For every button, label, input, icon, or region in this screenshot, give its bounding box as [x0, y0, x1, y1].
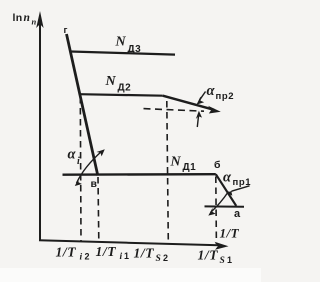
x-axis [39, 240, 219, 245]
svg-text:Д3: Д3 [128, 44, 142, 55]
svg-text:i: i [77, 156, 80, 167]
dashed vertical 1/T_i2 [79, 97, 82, 241]
svg-text:г: г [64, 25, 68, 36]
svg-text:n: n [24, 12, 30, 24]
svg-text:i: i [120, 252, 123, 262]
N_D2 arrow end [208, 106, 221, 114]
y-axis [39, 22, 41, 241]
svg-text:Д2: Д2 [118, 83, 132, 94]
intrinsic steep line [67, 34, 98, 176]
svg-text:2: 2 [163, 253, 168, 263]
svg-text:α: α [223, 170, 232, 186]
y-axis arrowhead [36, 11, 43, 28]
svg-text:в: в [91, 178, 98, 190]
dashed vertical 1/T_S1 [215, 177, 218, 245]
alpha_i arc arrowhead bottom [75, 178, 82, 186]
N_D2 sloped segment [163, 96, 214, 110]
sloped line b to a [216, 174, 236, 206]
N_D3 line [71, 52, 175, 55]
svg-text:а: а [234, 208, 241, 220]
svg-text:α: α [68, 147, 77, 163]
alpha_i arc [77, 151, 103, 183]
svg-text:1/T: 1/T [220, 226, 240, 241]
alpha_pr1 arc [211, 192, 229, 213]
alpha_pr1 arc arrowhead bottom [208, 208, 215, 216]
svg-text:1/T: 1/T [96, 244, 117, 259]
alpha_pr2 up arrow [197, 116, 198, 127]
svg-text:N: N [105, 74, 117, 89]
alpha_pr1 label arrow [232, 186, 250, 191]
horizontal ref line through a [205, 205, 245, 207]
svg-text:пр1: пр1 [233, 177, 252, 188]
svg-text:i: i [80, 253, 83, 263]
N_D1 line [63, 173, 216, 176]
svg-text:2: 2 [85, 252, 90, 262]
alpha_pr2 label arrow [200, 92, 206, 101]
svg-text:1/T: 1/T [198, 248, 219, 263]
svg-text:1/T: 1/T [56, 245, 77, 260]
svg-text:α: α [207, 83, 216, 99]
dashed horizontal at alpha_pr2 [144, 109, 205, 112]
svg-text:ln: ln [13, 12, 23, 24]
svg-text:N: N [115, 35, 127, 50]
x-axis arrowhead [215, 242, 229, 250]
dashed vertical 1/T_i1 [97, 177, 100, 241]
svg-text:N: N [170, 155, 182, 170]
alpha_i arc arrowhead top [97, 149, 105, 156]
svg-text:1: 1 [124, 251, 129, 261]
svg-text:1: 1 [227, 255, 232, 265]
dashed vertical 1/T_S2 [167, 101, 169, 242]
svg-text:Д1: Д1 [183, 162, 197, 173]
svg-text:S: S [220, 256, 225, 266]
svg-text:1/T: 1/T [134, 246, 155, 261]
N_D2 line horizontal [80, 94, 163, 96]
svg-text:n: n [32, 17, 37, 27]
svg-text:б: б [214, 159, 221, 171]
svg-text:S: S [156, 254, 161, 264]
svg-text:пр2: пр2 [216, 91, 235, 102]
